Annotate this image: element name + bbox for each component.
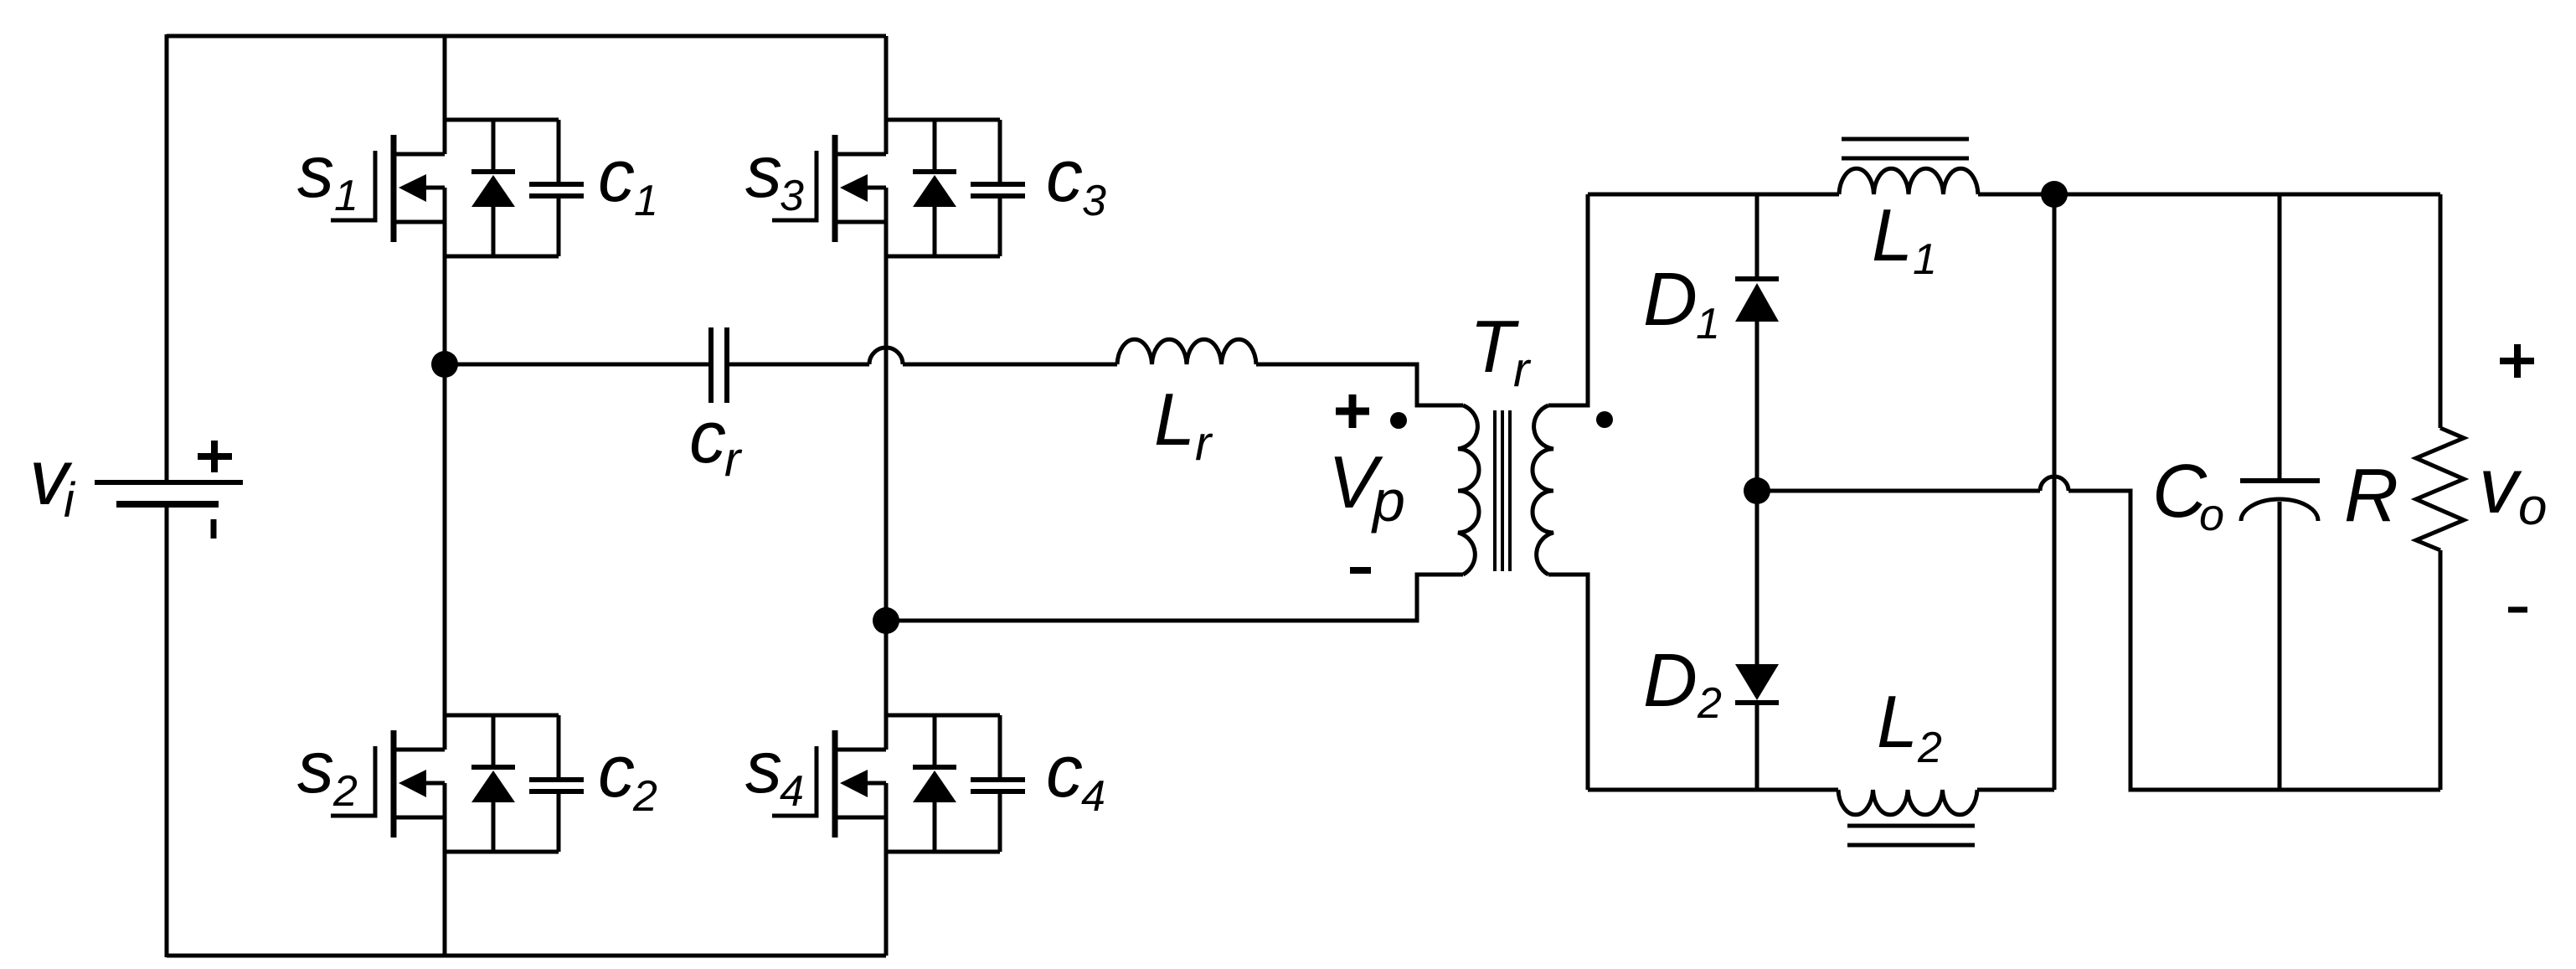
battery vi xyxy=(95,482,243,504)
inductor L1 core lines xyxy=(1842,139,1969,158)
label S4 xyxy=(745,725,804,816)
vo plus sign xyxy=(2500,344,2534,378)
transistor S2 xyxy=(331,730,445,838)
transistor S1 xyxy=(331,135,445,242)
svg-text:c: c xyxy=(689,395,726,478)
inductor L1 xyxy=(1839,168,1978,194)
wire Lr to transformer primary top xyxy=(1256,364,1463,405)
svg-text:r: r xyxy=(724,432,743,487)
label L1 xyxy=(1872,193,1937,284)
svg-text:R: R xyxy=(2344,454,2398,538)
label C2 xyxy=(598,729,657,821)
transformer primary dot xyxy=(1390,412,1407,429)
svg-text:L: L xyxy=(1877,680,1918,763)
label Lr xyxy=(1154,378,1213,471)
capacitor C2 xyxy=(529,715,584,852)
label Co xyxy=(2152,450,2224,540)
transformer secondary winding xyxy=(1533,405,1553,575)
wire S2 parallel branch frame xyxy=(445,715,559,852)
svg-text:r: r xyxy=(1513,343,1532,397)
diode D1 xyxy=(1735,194,1779,491)
node B xyxy=(873,607,899,634)
svg-text:2: 2 xyxy=(332,767,358,816)
wire S4 parallel branch frame xyxy=(886,715,1000,852)
svg-text:c: c xyxy=(598,134,635,217)
battery minus sign xyxy=(211,519,217,539)
diode S4 body xyxy=(913,715,956,852)
battery plus sign xyxy=(198,441,232,472)
wire hop over output vertical xyxy=(2040,477,2069,491)
label D1 xyxy=(1643,258,1720,348)
wire top rail xyxy=(167,34,886,39)
svg-text:4: 4 xyxy=(1081,772,1105,821)
capacitor Cr xyxy=(711,327,727,403)
wire right leg drain of S3 xyxy=(884,36,889,154)
wire hop to Lr xyxy=(903,363,1117,367)
svg-text:c: c xyxy=(1046,134,1083,217)
svg-text:3: 3 xyxy=(780,172,804,220)
svg-text:s: s xyxy=(745,725,782,808)
transistor S4 xyxy=(772,730,886,838)
svg-text:s: s xyxy=(297,725,334,808)
label vo xyxy=(2479,441,2547,536)
wire left leg S1 source to node A to S2 drain xyxy=(443,188,447,750)
wire L2 to output vertical xyxy=(1977,788,2054,792)
svg-text:D: D xyxy=(1643,258,1698,342)
capacitor C1 xyxy=(529,120,584,256)
wire node A to Cr xyxy=(445,363,708,367)
wire output plus rail xyxy=(2054,193,2440,197)
diode S3 body xyxy=(913,120,956,256)
svg-text:1: 1 xyxy=(634,177,658,225)
svg-text:i: i xyxy=(64,473,76,528)
svg-text:1: 1 xyxy=(1913,235,1937,284)
capacitor C3 xyxy=(971,120,1025,256)
wire secondary bottom stub xyxy=(1548,575,1588,790)
wire S3 parallel branch frame xyxy=(886,120,1000,256)
capacitor C4 xyxy=(971,715,1025,852)
svg-text:s: s xyxy=(297,130,334,213)
svg-text:2: 2 xyxy=(1697,679,1722,728)
wire left leg drain of S1 xyxy=(443,36,447,154)
label S3 xyxy=(745,130,804,220)
node L1 L2 junction xyxy=(2041,181,2068,208)
svg-text:2: 2 xyxy=(1917,724,1942,772)
wire secondary bottom rail xyxy=(1588,788,1838,792)
label D2 xyxy=(1643,639,1722,728)
Vp plus sign xyxy=(1336,394,1369,428)
label C1 xyxy=(598,134,658,225)
svg-text:v: v xyxy=(2479,441,2522,529)
wire transformer primary bottom to node B xyxy=(886,575,1463,621)
wire secondary top stub xyxy=(1548,194,1588,405)
wire left leg S2 source to bottom rail xyxy=(443,783,447,956)
label Tr xyxy=(1470,305,1532,397)
transformer primary winding xyxy=(1458,405,1479,575)
node D1 D2 junction xyxy=(1744,477,1770,504)
svg-text:c: c xyxy=(598,729,635,812)
svg-text:p: p xyxy=(1371,468,1405,533)
inductor Lr xyxy=(1117,339,1256,364)
inductor L2 core lines xyxy=(1847,826,1975,845)
diode S2 body xyxy=(471,715,515,852)
wire D node rail to output minus corner xyxy=(2069,491,2440,790)
label S1 xyxy=(297,130,358,220)
node A xyxy=(431,351,458,378)
transistor S3 xyxy=(772,135,886,242)
svg-text:s: s xyxy=(745,130,782,213)
svg-text:3: 3 xyxy=(1082,177,1106,225)
wire right leg S3 source to node B to S4 drain xyxy=(884,188,889,750)
wire D node to hop xyxy=(1757,489,2040,493)
resistor R xyxy=(2416,194,2464,790)
label S2 xyxy=(297,725,358,816)
label Vp xyxy=(1328,441,1405,533)
wire S1 parallel branch frame xyxy=(445,120,559,256)
wire secondary top rail xyxy=(1588,193,1839,197)
svg-text:D: D xyxy=(1643,639,1698,723)
inductor L2 xyxy=(1838,790,1977,815)
svg-text:L: L xyxy=(1154,378,1195,461)
transformer core xyxy=(1495,410,1510,571)
transformer secondary dot xyxy=(1596,411,1613,428)
svg-text:o: o xyxy=(2199,490,2224,540)
svg-text:L: L xyxy=(1872,193,1913,276)
wire right leg S4 source to bottom rail xyxy=(884,783,889,956)
wire L1 to output node xyxy=(1978,193,2054,197)
vo minus sign xyxy=(2508,607,2527,613)
label vi xyxy=(29,433,76,528)
diode D2 xyxy=(1735,491,1779,790)
capacitor Co xyxy=(2240,194,2320,790)
label C4 xyxy=(1046,729,1105,821)
wire left source lead upper xyxy=(165,34,169,482)
svg-text:2: 2 xyxy=(632,772,657,821)
wire output node vertical xyxy=(2053,194,2057,790)
svg-text:c: c xyxy=(1046,729,1083,812)
diode S1 body xyxy=(471,120,515,256)
label C3 xyxy=(1046,134,1106,225)
svg-text:1: 1 xyxy=(1696,300,1720,348)
svg-text:r: r xyxy=(1195,416,1213,471)
label R xyxy=(2344,454,2398,538)
wire bottom rail xyxy=(167,954,886,958)
label Cr xyxy=(689,395,743,487)
svg-text:4: 4 xyxy=(780,767,804,816)
label L2 xyxy=(1877,680,1942,772)
wire left source lead lower xyxy=(165,505,169,957)
svg-text:o: o xyxy=(2518,478,2547,536)
Vp minus sign xyxy=(1350,567,1371,574)
svg-text:1: 1 xyxy=(334,172,358,220)
wire Cr to hop xyxy=(729,363,869,367)
wire hop over right leg xyxy=(869,348,903,364)
svg-text:T: T xyxy=(1470,305,1519,388)
